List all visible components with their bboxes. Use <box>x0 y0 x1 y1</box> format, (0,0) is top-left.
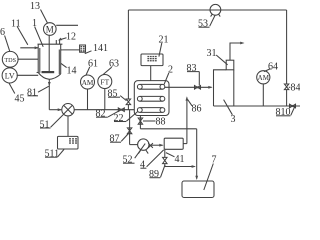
AM drop line <box>87 89 89 110</box>
line from motor to right <box>56 24 78 26</box>
valve 89 <box>163 157 167 163</box>
valve 88 <box>138 118 142 124</box>
label 81 <box>27 86 49 98</box>
pump 52 <box>138 139 149 154</box>
agitator paddle <box>42 71 55 73</box>
svg-text:141: 141 <box>93 43 108 54</box>
label 52 <box>123 144 146 166</box>
label 64 <box>264 62 278 73</box>
label 22 <box>114 112 138 124</box>
valve 83 <box>195 86 201 90</box>
label 7 <box>204 155 217 191</box>
tank 4 outlet drop <box>164 149 166 157</box>
evaporator 2 shell <box>134 81 169 116</box>
label 3 <box>224 100 236 125</box>
label 41 <box>166 153 185 165</box>
label 4 <box>140 150 164 171</box>
svg-text:TDS: TDS <box>4 57 16 64</box>
label 2 <box>164 65 173 85</box>
svg-text:12: 12 <box>66 32 76 43</box>
bottom pipe from tank 3 to 810 <box>214 105 301 107</box>
svg-text:84: 84 <box>291 83 301 94</box>
AM 64 drop line <box>262 84 264 106</box>
svg-text:511: 511 <box>45 149 60 160</box>
label 53 <box>198 15 215 29</box>
label 88 <box>143 117 166 128</box>
label 83 <box>187 63 200 85</box>
svg-text:M: M <box>46 24 54 34</box>
line valve 84 down to pipe <box>286 90 288 106</box>
svg-text:14: 14 <box>67 66 77 77</box>
label 6 <box>0 27 10 51</box>
svg-text:6: 6 <box>0 27 5 38</box>
svg-text:3: 3 <box>231 114 236 125</box>
big vapour loop top <box>128 9 286 11</box>
AM sensor 64 <box>257 71 270 84</box>
tank 3 cap 31 <box>226 60 234 70</box>
svg-text:LV: LV <box>5 71 15 80</box>
label 45 <box>9 83 25 105</box>
svg-text:85: 85 <box>108 89 118 100</box>
svg-text:51: 51 <box>40 120 50 131</box>
svg-text:89: 89 <box>149 169 159 180</box>
label 82 <box>96 109 120 120</box>
vessel top nozzle (12) <box>56 40 59 44</box>
mixing tank 4 <box>164 138 183 149</box>
label 51 <box>40 115 64 131</box>
valve 810 <box>290 104 296 108</box>
TDS line to vessel <box>17 58 38 60</box>
heating tube row 3 <box>137 108 164 113</box>
vent arrow from cap <box>230 42 245 61</box>
svg-text:21: 21 <box>159 35 169 46</box>
bottom pipe left section <box>49 109 61 111</box>
label 31 <box>207 48 228 65</box>
label 13 <box>30 1 48 23</box>
valve 87 <box>127 128 131 134</box>
label 86 <box>188 99 202 114</box>
label 89 <box>149 165 165 180</box>
label 141 <box>85 43 108 54</box>
dosing box 511 <box>58 136 79 149</box>
pump outlet with cross mark <box>148 143 163 148</box>
svg-text:4: 4 <box>140 160 145 171</box>
label 11 <box>11 19 28 45</box>
line valve 85 to pipe <box>127 105 129 110</box>
svg-text:52: 52 <box>123 155 133 166</box>
label 12 with arrow <box>58 32 76 43</box>
LV sensor circle <box>2 68 17 83</box>
recirculation line to tank 7 drop <box>140 128 196 130</box>
svg-text:AM: AM <box>258 74 270 82</box>
svg-text:81: 81 <box>27 88 37 99</box>
valve 82 <box>118 108 124 112</box>
label 63 <box>103 59 119 75</box>
svg-text:88: 88 <box>156 117 166 128</box>
tank 7 feed vertical <box>196 129 198 179</box>
agitator shaft <box>48 36 50 72</box>
TDS sensor circle 6 <box>2 51 18 67</box>
label 85 <box>108 89 127 101</box>
valve 88 drop from evaporator <box>139 116 141 129</box>
loop left vertical <box>127 10 129 99</box>
FT drop line <box>104 89 106 110</box>
label 1 <box>32 18 43 47</box>
svg-text:41: 41 <box>175 154 185 165</box>
loop right vertical <box>286 10 288 84</box>
line vessel to flame arrester 141 <box>63 49 80 51</box>
FT sensor 63 <box>98 75 112 89</box>
label 21 <box>159 35 169 57</box>
label 511 <box>45 149 65 160</box>
arrow into tank 7 <box>195 176 198 180</box>
return line 86 with up arrow <box>183 96 188 143</box>
valve 84 <box>284 84 288 90</box>
svg-text:11: 11 <box>11 19 21 30</box>
feed line arrow into vessel <box>20 46 39 49</box>
line valve 89 to tank7 feed <box>165 164 196 168</box>
valve 85 <box>126 99 130 105</box>
svg-text:87: 87 <box>110 134 120 145</box>
pump 51 (circle with X) <box>62 104 74 116</box>
heating tube row 2 <box>137 96 164 101</box>
pump drop line to dosing box <box>67 116 69 136</box>
label 87 <box>110 133 129 144</box>
label 61 <box>86 59 98 76</box>
vessel outlet pipe 81 <box>48 79 51 109</box>
flame arrester 141 (hatched box) <box>80 45 86 52</box>
line into pump 52 <box>130 144 138 146</box>
control panel 21 <box>141 54 163 66</box>
svg-text:83: 83 <box>187 63 197 74</box>
svg-text:22: 22 <box>114 113 124 124</box>
svg-text:64: 64 <box>268 62 278 73</box>
svg-text:82: 82 <box>96 109 106 120</box>
AM sensor 61 <box>81 75 95 89</box>
heating tube row 1 <box>137 84 164 89</box>
svg-text:810: 810 <box>276 107 291 118</box>
LV line to vessel <box>17 74 39 76</box>
line pump to valve 82 <box>74 109 134 111</box>
tank 7 <box>182 181 214 198</box>
valve 87 drop line <box>129 110 131 145</box>
vessel 1 shell <box>37 44 63 79</box>
label 810 <box>276 106 296 118</box>
motor M circle 13 <box>44 23 57 36</box>
evaporator outlet pipe to tank 3 <box>165 86 212 88</box>
svg-text:AM: AM <box>82 79 94 87</box>
crystallizer tank 3 <box>214 70 234 106</box>
svg-text:86: 86 <box>192 104 202 115</box>
label 14 <box>61 63 77 76</box>
svg-text:7: 7 <box>212 155 217 166</box>
svg-text:13: 13 <box>30 1 40 12</box>
svg-text:31: 31 <box>207 48 217 59</box>
svg-text:45: 45 <box>15 94 25 105</box>
blower 53 on loop <box>210 4 221 16</box>
svg-text:FT: FT <box>100 77 109 86</box>
arrow into tank 3 <box>208 86 212 89</box>
svg-text:53: 53 <box>198 19 208 30</box>
flow arrow into pump 51 <box>58 108 62 111</box>
label 84 <box>289 83 301 94</box>
panel drop line to evaporator <box>150 66 152 81</box>
